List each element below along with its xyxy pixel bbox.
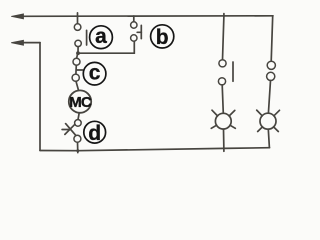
lamp 1 circle <box>215 113 231 129</box>
wire: contact to lamp 2 <box>268 81 270 114</box>
wire: junction down to contact c <box>77 53 78 58</box>
contact c top terminal <box>73 58 80 65</box>
node: junction dot <box>76 51 80 55</box>
wire: riser to b bottom terminal <box>133 41 135 53</box>
contact d cross stroke <box>65 124 75 134</box>
wire: horizontal link to pushbutton b <box>78 52 134 54</box>
wire: bottom rail <box>40 148 270 151</box>
contact MC-a actuator bar <box>232 62 234 81</box>
label a circle <box>90 26 113 49</box>
contact MC-a bottom terminal <box>218 78 225 85</box>
wire: lamp 2 to bottom rail corner <box>268 129 269 148</box>
wire: c to MC coil <box>76 81 79 90</box>
wire: lamp 1 to bottom rail <box>223 129 225 151</box>
wire: top supply rail <box>20 15 273 17</box>
lamp 2 circle <box>260 113 276 129</box>
arrow: top-left supply arrow <box>11 14 23 19</box>
pushbutton b actuator tick <box>137 31 141 33</box>
label c circle <box>83 62 106 85</box>
contact d bottom terminal <box>74 135 81 142</box>
wire: a bottom to junction <box>77 47 79 53</box>
wire: contact to lamp 1 <box>222 85 223 113</box>
pushbutton b bottom terminal <box>131 35 137 41</box>
node: junction tick top rail at main branch <box>77 13 79 17</box>
label b circle <box>151 25 174 48</box>
pushbutton a top terminal <box>74 24 81 31</box>
lamp 1 rays <box>212 110 218 116</box>
wire: b top to rail <box>133 16 135 22</box>
svg-text:c: c <box>89 61 101 84</box>
contact d reset tick <box>62 129 71 131</box>
wire: d to bottom rail <box>77 142 79 152</box>
contact MC-b bottom terminal <box>267 72 275 80</box>
svg-text:b: b <box>156 26 169 49</box>
wire: c mid link <box>75 65 77 74</box>
pushbutton b top terminal <box>131 22 137 28</box>
wire: left vertical drop <box>39 43 41 151</box>
contact MC-a top terminal <box>219 60 226 67</box>
wire: second supply lead <box>21 42 40 44</box>
pushbutton a actuator bar <box>86 30 88 45</box>
label d circle <box>84 121 106 143</box>
contact d top terminal <box>75 120 82 127</box>
pushbutton a bottom terminal <box>75 40 81 46</box>
contact MC-b top terminal <box>267 61 275 69</box>
svg-text:MC: MC <box>69 94 92 111</box>
contact d blade <box>66 124 77 137</box>
contact c bottom terminal <box>72 74 79 81</box>
node: junction tick top rail at lamp branch <box>223 14 225 17</box>
lamp 2 rays <box>257 110 263 116</box>
wire: main branch from top rail <box>77 16 79 24</box>
svg-text:a: a <box>95 25 107 48</box>
pushbutton b actuator bar <box>140 25 142 38</box>
node: bottom junction blob <box>76 149 79 152</box>
wire: lamp branch from top rail <box>223 16 224 60</box>
wire: right vertical rail <box>271 16 273 62</box>
arrow: second supply arrow <box>11 40 23 45</box>
wire: MC to contact d <box>78 113 79 120</box>
contact c tick <box>76 69 82 71</box>
svg-text:d: d <box>88 122 101 145</box>
coil MC circle <box>69 90 91 112</box>
